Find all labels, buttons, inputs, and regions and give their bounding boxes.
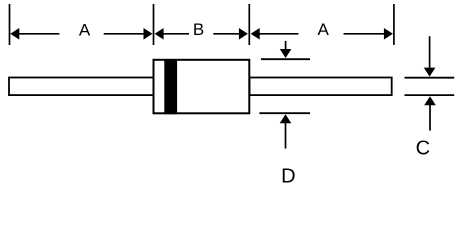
dimension D: label D (281, 165, 295, 187)
dimension D: top extension line (261, 58, 310, 60)
left lead (9, 78, 154, 96)
svg-text:B: B (193, 20, 204, 39)
cathode band (164, 59, 177, 114)
dimension C: top extension line (405, 77, 455, 79)
dimension C: bottom extension line (405, 94, 455, 96)
dimension D: bottom extension line (259, 112, 310, 114)
dimension A left: label A (79, 20, 91, 39)
dimension A right: label A (318, 20, 330, 39)
dimension B: arrow right (213, 28, 248, 40)
dimension A left: arrow right (104, 28, 153, 40)
tick extension line at body left (node at x=153.5) (153, 4, 155, 45)
dimension B: arrow left (155, 28, 189, 40)
dimension C: top arrow (down) (424, 36, 436, 76)
tick extension line left (node at x=9.5) (9, 4, 11, 45)
svg-text:C: C (416, 138, 430, 160)
dimension A left: arrow left (10, 28, 59, 40)
dimension C: label C (416, 138, 430, 160)
dimension A right: arrow right (344, 28, 393, 40)
right lead (250, 78, 392, 96)
dimension D: bottom arrow (up) (280, 114, 292, 148)
dimension B: label B (193, 20, 204, 39)
dimension C: bottom arrow (up) (424, 96, 436, 130)
svg-text:D: D (281, 165, 295, 184)
tick extension line right lead end (node at x=393.9) (393, 4, 395, 45)
dimension D: top arrow (down) (280, 41, 292, 58)
dimension A right: arrow left (251, 28, 299, 40)
tick extension line at body right (node at x=249.3) (248, 4, 250, 45)
svg-text:A: A (318, 20, 330, 39)
svg-text:A: A (79, 20, 91, 39)
diode body (154, 60, 250, 114)
